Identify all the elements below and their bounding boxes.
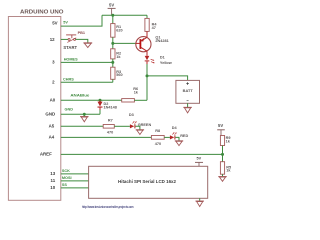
node GND junction: [83, 113, 86, 116]
svg-text:R8: R8: [155, 129, 160, 133]
wire D1 cathode down to BATT node: [146, 61, 148, 64]
power flag 5V LCD: [195, 157, 203, 167]
resistor R7: [103, 119, 114, 135]
svg-text:A0: A0: [50, 98, 56, 103]
wire R8 to D4: [164, 136, 170, 138]
svg-text:PB1: PB1: [78, 31, 85, 35]
svg-text:620: 620: [116, 29, 122, 33]
wire A4 row to R8: [61, 136, 152, 138]
wire A0 row left: [61, 99, 122, 101]
resistor R4: [145, 18, 157, 31]
wire R1 bottom to base node: [112, 37, 114, 49]
svg-text:AREF: AREF: [40, 152, 52, 157]
node A0/D2 junction: [99, 99, 102, 102]
wire CHRS pin2: [61, 81, 113, 83]
svg-text:5V: 5V: [52, 20, 57, 25]
svg-text:2N4281: 2N4281: [155, 39, 168, 43]
svg-text:Hitachi SPI Serial LCD 16x2: Hitachi SPI Serial LCD 16x2: [118, 179, 177, 184]
svg-text:5V: 5V: [63, 20, 68, 24]
svg-text:470: 470: [155, 142, 161, 146]
battery BATT box: [176, 80, 200, 103]
svg-text:12: 12: [50, 37, 55, 42]
wire A5 row to R7: [61, 125, 103, 127]
wire D3 to ground: [135, 126, 140, 129]
svg-text:SCK: SCK: [62, 169, 70, 173]
Arduino UNO box: [8, 17, 60, 201]
svg-text:5V: 5V: [109, 3, 114, 8]
node HOMES junction: [111, 61, 114, 64]
svg-text:5V: 5V: [196, 157, 201, 161]
node BATT junction: [146, 74, 149, 77]
node AREF junction: [221, 153, 224, 156]
wire pin13 SCK: [61, 173, 89, 175]
wire R4 to transistor collector: [146, 31, 148, 37]
svg-text:ANABlue: ANABlue: [70, 94, 89, 98]
wire HOMES pin3: [61, 61, 113, 63]
wire D4 to ground: [175, 137, 179, 140]
ground below BATT: [183, 103, 191, 113]
wire to BATT: [147, 76, 188, 81]
svg-text:10: 10: [50, 185, 55, 190]
wire R9 to AREF node: [222, 146, 224, 155]
LED D4 RED: [170, 126, 189, 140]
power flag 5V main: [108, 3, 116, 16]
svg-text:470: 470: [107, 130, 113, 134]
ground at GND pin: [80, 114, 88, 122]
wire pin10 SS: [61, 187, 89, 189]
svg-text:GND: GND: [45, 111, 55, 116]
wire R7 to D3: [114, 125, 130, 127]
svg-text:13: 13: [50, 171, 55, 176]
wire rail corner to R4: [146, 15, 148, 18]
wire R1 top lead: [112, 15, 114, 23]
svg-text:1N4148: 1N4148: [104, 106, 117, 110]
svg-text:47: 47: [152, 26, 156, 30]
svg-text:SS: SS: [62, 183, 68, 187]
node base junction: [111, 42, 114, 45]
ground below LCD: [196, 198, 204, 206]
resistor R8: [151, 129, 164, 146]
diode D2 1N4148: [98, 100, 117, 109]
resistor R1: [111, 24, 123, 38]
svg-text:A4: A4: [49, 135, 55, 140]
LED D1 Yellow: [145, 55, 172, 65]
svg-text:CHRS: CHRS: [63, 78, 74, 82]
wire pin12 to button: [61, 38, 68, 40]
wire R6 right to riser: [134, 99, 147, 101]
ground below R5: [218, 174, 226, 181]
wire AREF node to R5: [222, 154, 224, 161]
power flag 5V right: [217, 123, 225, 136]
ground at D4: [175, 141, 183, 146]
svg-text:Yellow: Yellow: [160, 61, 172, 65]
transistor Q1 2N4281: [136, 35, 169, 51]
svg-text:HOMES: HOMES: [64, 58, 78, 62]
svg-text:ARDUINO UNO: ARDUINO UNO: [20, 10, 64, 16]
svg-text:RED: RED: [180, 134, 188, 138]
wire 5V pin to rail riser: [61, 15, 102, 26]
svg-text:5V: 5V: [218, 123, 223, 128]
svg-text:11: 11: [51, 178, 56, 183]
resistor R3: [111, 67, 123, 79]
svg-text:D3: D3: [129, 113, 134, 117]
wire R2 bottom to HOMES node: [112, 59, 114, 67]
wire transistor emitter to D1: [146, 51, 148, 56]
svg-text:MOSI: MOSI: [62, 176, 72, 180]
svg-text:START: START: [63, 45, 77, 50]
wire BATT node down to A0 row: [146, 76, 148, 100]
resistor R5: [220, 162, 231, 175]
wire R3 bottom to CHRS: [112, 79, 114, 82]
svg-text:GND: GND: [65, 107, 74, 111]
svg-text:A5: A5: [49, 124, 55, 129]
wire button to ground: [76, 39, 88, 42]
svg-text:D1: D1: [160, 55, 165, 59]
wire base node to transistor: [113, 42, 136, 44]
wire AREF row: [61, 153, 223, 155]
LED D3 GREEN: [129, 113, 152, 128]
pushbutton PB1: [63, 31, 85, 50]
resistor R2: [111, 49, 122, 59]
resistor R9: [220, 136, 230, 146]
ground at button: [83, 43, 92, 48]
wire D2 cathode to GND row: [99, 107, 101, 110]
resistor R6: [122, 87, 139, 102]
ground at D3: [136, 130, 144, 135]
svg-text:BATT: BATT: [183, 88, 194, 93]
node junction rail/R1: [111, 14, 114, 17]
LCD module box: [89, 166, 208, 198]
svg-text:http://www.best-microcontrolle: http://www.best-microcontroller-projects…: [82, 205, 134, 209]
wire pin11 MOSI: [61, 180, 89, 182]
wire 5V rail: [102, 14, 147, 16]
svg-text:560: 560: [116, 73, 122, 77]
svg-text:R7: R7: [108, 119, 113, 123]
wire GND pin row: [61, 113, 100, 115]
